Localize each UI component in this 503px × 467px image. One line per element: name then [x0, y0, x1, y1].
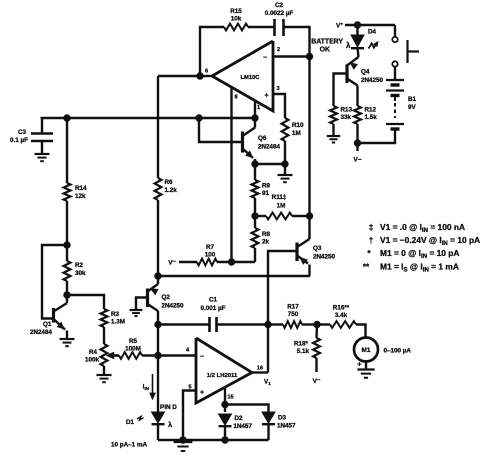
wire node to R3	[67, 295, 104, 309]
svg-text:R12: R12	[365, 107, 377, 114]
svg-text:‡: ‡	[369, 223, 374, 232]
resistor R11	[255, 194, 310, 219]
node R10 bottom	[282, 161, 288, 167]
node Q2 collector C1	[155, 321, 161, 327]
svg-text:15: 15	[227, 395, 233, 401]
transistor Q3 2N4250	[297, 239, 336, 276]
svg-text:OK: OK	[320, 47, 330, 54]
note 1	[369, 222, 465, 234]
op-amp U2 1/2 LH2011	[186, 338, 263, 403]
svg-text:V−: V−	[353, 157, 361, 164]
label V+	[336, 22, 343, 30]
svg-text:2N4250: 2N4250	[162, 303, 185, 310]
svg-text:R10: R10	[292, 122, 304, 129]
node bus-pin1	[252, 115, 258, 121]
svg-text:R9: R9	[262, 183, 271, 190]
svg-text:R16**: R16**	[333, 305, 350, 312]
wire output feedback up	[200, 27, 224, 76]
svg-text:C3: C3	[18, 129, 27, 136]
svg-text:91: 91	[262, 190, 270, 197]
node rail left	[155, 273, 161, 279]
photodiode D1 PIN	[126, 404, 177, 429]
svg-text:R3: R3	[111, 311, 120, 318]
node pin8-Vminus	[228, 259, 234, 265]
ground under R4	[97, 375, 112, 382]
wire switch to battery	[394, 67, 396, 79]
svg-text:Q3: Q3	[313, 245, 322, 252]
svg-text:2: 2	[277, 47, 280, 53]
wire node down to D1	[157, 356, 159, 413]
svg-text:λ: λ	[346, 41, 351, 50]
node R9-R11-R8	[252, 213, 258, 219]
wire pin15 stub	[224, 388, 226, 405]
resistor R4 potentiometer	[85, 344, 119, 366]
capacitor C3	[10, 118, 53, 153]
svg-text:M1: M1	[362, 347, 371, 354]
svg-text:6: 6	[205, 69, 208, 75]
wire Vminus to R7	[179, 261, 197, 263]
ground under C3	[35, 154, 50, 161]
svg-text:33k: 33k	[341, 114, 352, 121]
svg-text:9V: 9V	[408, 104, 417, 111]
node pin2	[306, 53, 312, 59]
label V- under R18	[313, 378, 321, 385]
node C1-R17-output	[265, 321, 271, 327]
node bus-pin5	[180, 437, 186, 443]
ground under M1	[357, 370, 374, 378]
wire pin2 node down to R11 node	[308, 57, 310, 217]
svg-text:D2: D2	[235, 415, 244, 422]
svg-text:R14: R14	[75, 185, 87, 192]
svg-text:R18*: R18*	[294, 341, 309, 348]
svg-text:R11‡: R11‡	[272, 194, 287, 201]
svg-text:1N457: 1N457	[277, 423, 296, 430]
label BATTERY OK	[311, 39, 343, 54]
resistor R5	[119, 338, 142, 359]
svg-text:Q1: Q1	[43, 321, 52, 328]
wire R6 to rail	[157, 200, 159, 276]
diode D3 1N457	[262, 412, 296, 430]
svg-text:C1: C1	[209, 297, 218, 304]
wire D2 to bus	[224, 427, 226, 440]
svg-text:8: 8	[234, 95, 237, 101]
svg-text:R8: R8	[262, 231, 271, 238]
ground under R10	[278, 164, 293, 182]
svg-text:2k: 2k	[262, 239, 270, 246]
ground under Q2 base	[130, 310, 143, 316]
wire pin15 to D3	[225, 405, 269, 413]
svg-text:1M: 1M	[277, 203, 286, 210]
wire rail to Q2 emitter	[157, 276, 159, 284]
capacitor C2	[265, 2, 294, 36]
node R14-R2	[64, 242, 70, 248]
diode D2 1N457	[219, 414, 253, 430]
svg-text:2N2484: 2N2484	[258, 144, 281, 151]
wire pin8 stub	[230, 87, 232, 262]
svg-text:R13: R13	[341, 107, 353, 114]
svg-text:750: 750	[288, 311, 299, 318]
wire output left	[158, 75, 200, 77]
node R17-R16-R18	[314, 321, 320, 327]
battery B1 9V	[386, 80, 417, 129]
svg-text:R17: R17	[287, 304, 299, 311]
svg-text:D1: D1	[126, 419, 135, 426]
svg-text:D4: D4	[368, 29, 377, 36]
note 3	[367, 248, 459, 260]
svg-text:5.1k: 5.1k	[297, 348, 310, 355]
wire C2 to pin2 node	[285, 27, 310, 57]
svg-text:12k: 12k	[75, 193, 86, 200]
svg-text:1.3M: 1.3M	[111, 319, 125, 326]
wire R10 bottom	[284, 141, 286, 164]
wire node to Q1 base	[42, 245, 67, 319]
wire V+ rail	[345, 24, 395, 26]
wire R8 to Vminus rail	[254, 248, 256, 262]
svg-text:30k: 30k	[75, 270, 86, 277]
wire bus to Q6 base	[199, 118, 241, 142]
svg-text:+: +	[357, 360, 362, 369]
svg-text:1/2 LH2011: 1/2 LH2011	[207, 373, 238, 379]
svg-text:100M: 100M	[125, 346, 141, 353]
label IIN arrow	[143, 374, 155, 399]
wire pin3	[273, 94, 285, 118]
svg-text:Q6: Q6	[258, 135, 267, 142]
ground under Q1	[60, 339, 75, 346]
wire R2 to node	[66, 281, 68, 295]
wire pin1 stub	[254, 101, 256, 119]
svg-text:10 pA–1 mA: 10 pA–1 mA	[111, 442, 147, 449]
svg-text:R4: R4	[89, 349, 98, 356]
wire C1 left	[158, 323, 209, 325]
svg-text:100k: 100k	[85, 357, 100, 364]
wire R4 to ground	[103, 366, 105, 374]
resistor R17	[268, 304, 302, 328]
wire R16 to meter	[356, 325, 366, 337]
svg-text:0.001 µF: 0.001 µF	[201, 305, 226, 312]
wire pin6 output to node	[200, 75, 212, 77]
op-amp U1 LM10C	[205, 41, 280, 111]
wire LED to Q4	[358, 49, 359, 58]
svg-text:3.4k: 3.4k	[335, 312, 348, 319]
wire Q6 emitter to R10 ground	[255, 163, 285, 165]
resistor R2	[64, 245, 86, 281]
svg-text:1: 1	[257, 105, 260, 111]
transistor Q2 2N4250	[136, 284, 184, 325]
node R2-Q1-R3	[64, 292, 70, 298]
wire output down R6	[157, 76, 159, 178]
wire R17 to node	[302, 323, 317, 325]
resistor R15	[224, 8, 248, 30]
svg-text:C2: C2	[275, 2, 284, 9]
wire D2 top	[224, 405, 226, 413]
resistor R13	[330, 106, 352, 124]
label V- left	[168, 260, 176, 267]
node Q6 emitter	[252, 161, 258, 167]
transistor Q6 2N2484	[243, 118, 281, 164]
svg-text:Q4: Q4	[361, 69, 370, 76]
svg-text:−: −	[200, 354, 204, 361]
wire V+ to switch	[394, 25, 396, 37]
switch S1 pushbutton	[392, 37, 419, 67]
note 4	[363, 262, 459, 274]
wire R3 to R4	[103, 327, 105, 344]
wire R12 to node	[356, 124, 358, 143]
svg-text:+: +	[264, 93, 268, 100]
resistor R12	[354, 106, 377, 124]
svg-text:PIN D: PIN D	[160, 404, 177, 411]
svg-text:D3: D3	[278, 415, 287, 422]
resistor R18	[294, 325, 320, 373]
svg-text:Q2: Q2	[162, 294, 171, 301]
svg-text:**: **	[363, 263, 370, 272]
svg-text:R7: R7	[206, 244, 215, 251]
wire output pin16	[252, 371, 268, 373]
wire rail y276	[158, 275, 310, 277]
wire R7 to R8	[217, 261, 255, 263]
svg-text:3: 3	[276, 86, 279, 92]
resistor R8	[252, 216, 271, 248]
wire wiper arrow	[107, 353, 119, 359]
svg-text:BATTERY: BATTERY	[311, 39, 343, 46]
svg-text:100: 100	[205, 252, 216, 259]
svg-text:R2: R2	[75, 262, 84, 269]
meter M1	[354, 338, 411, 370]
svg-text:0–100 µA: 0–100 µA	[384, 348, 412, 355]
transistor Q1 2N2484	[30, 295, 67, 338]
wire Q3 base	[268, 251, 297, 373]
wire summing node down	[157, 325, 159, 356]
svg-text:2N4250: 2N4250	[361, 77, 384, 84]
svg-text:R5: R5	[129, 338, 138, 345]
node R11-pin2 rail	[306, 213, 312, 219]
wire bus to R14	[66, 118, 68, 183]
svg-text:R15: R15	[230, 8, 242, 15]
svg-text:LM10C: LM10C	[240, 75, 260, 81]
svg-text:+: +	[200, 390, 204, 397]
svg-text:V⁻: V⁻	[168, 260, 176, 267]
node battery return	[354, 140, 360, 146]
LED D4	[346, 29, 378, 51]
wire battery to return node	[358, 131, 396, 144]
svg-text:1.2k: 1.2k	[165, 187, 178, 194]
node V+ LED	[354, 22, 360, 28]
wire D1 to ground bus	[157, 425, 159, 440]
node summing pin4	[155, 352, 161, 358]
svg-text:0.0022 µF: 0.0022 µF	[265, 10, 294, 17]
resistor R10	[282, 118, 304, 141]
label current range	[111, 442, 147, 449]
svg-text:2N2484: 2N2484	[30, 329, 53, 336]
capacitor C1	[201, 297, 226, 333]
wire R9 to node	[254, 198, 256, 216]
wire R5 to pin4	[142, 354, 196, 356]
wire V- stub	[356, 143, 358, 151]
resistor R3	[101, 309, 125, 327]
resistor R7	[197, 244, 217, 265]
node pin15	[222, 401, 228, 407]
wire R15 to C2	[248, 26, 274, 28]
svg-text:10k: 10k	[231, 16, 242, 23]
wire pin2 rail to Q3 collector	[308, 216, 310, 239]
wire pin2	[273, 55, 310, 57]
wire R13 to ground	[332, 124, 334, 135]
resistor R6	[155, 178, 178, 200]
transistor Q4 2N4250	[334, 57, 384, 106]
label V1 output	[264, 379, 271, 387]
ground main	[174, 442, 193, 451]
svg-text:0.1 µF: 0.1 µF	[10, 137, 28, 144]
node bus-D2	[222, 437, 228, 443]
node bus-Q6base	[196, 115, 202, 121]
svg-text:1.5k: 1.5k	[365, 114, 378, 121]
svg-text:R6: R6	[165, 179, 174, 186]
label V- battery	[353, 157, 361, 164]
svg-text:†: †	[369, 236, 374, 245]
node output U1	[197, 73, 203, 79]
svg-text:B1: B1	[408, 96, 417, 103]
resistor R16	[317, 305, 356, 328]
svg-text:16: 16	[257, 366, 263, 372]
wire bus pin1 node	[41, 117, 256, 119]
resistor R14	[64, 183, 87, 201]
svg-text:2N4250: 2N4250	[313, 254, 336, 261]
wire R14 to node	[66, 201, 68, 245]
svg-text:V⁻: V⁻	[313, 378, 321, 385]
svg-text:1N457: 1N457	[234, 423, 253, 430]
wire C1 right	[218, 323, 269, 325]
node bus-C3	[64, 115, 70, 121]
wire LED top	[356, 25, 358, 35]
note 2	[369, 235, 480, 247]
svg-text:−: −	[263, 55, 267, 62]
wire D3 to bus	[267, 425, 269, 440]
wire pin5	[183, 391, 196, 441]
resistor R9	[252, 164, 271, 198]
wire ground bus	[158, 439, 269, 441]
ground under R13	[327, 136, 341, 142]
svg-text:1M: 1M	[292, 130, 301, 137]
